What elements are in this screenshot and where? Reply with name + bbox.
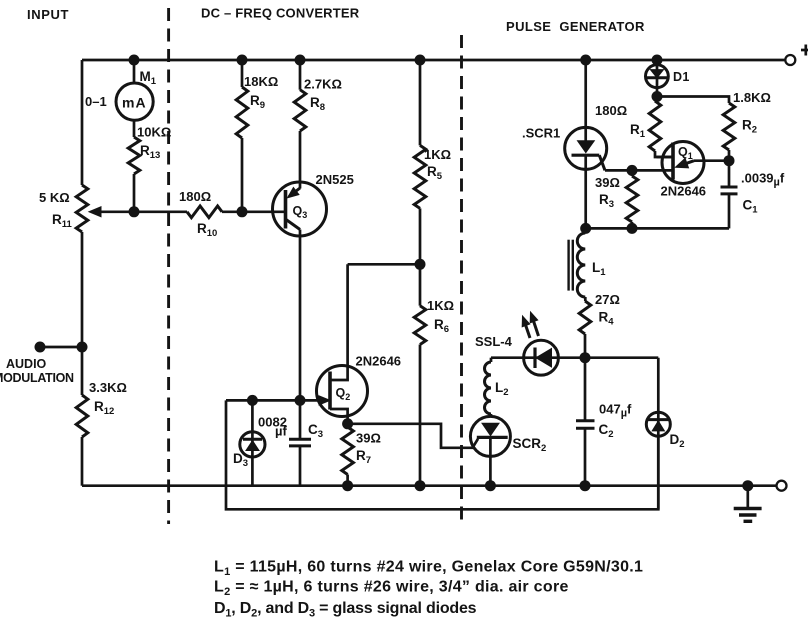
svg-text:L1 = 115µH, 60 turns #24 wire,: L1 = 115µH, 60 turns #24 wire, Genelax C… [214,559,643,579]
wire R8 upper lead [299,60,302,90]
junction R5 top [415,55,426,66]
svg-text:D1: D1 [673,70,690,84]
junction C2 bottom [580,480,591,491]
potentiometer R11 [76,185,88,232]
wire left rail lower [81,437,84,486]
wire audio input [40,346,82,349]
wire wiper arm [98,210,187,213]
unijunction transistor Q2 2N2646 [317,264,368,424]
inductor L1 [569,228,586,297]
junction audio node [77,342,88,353]
resistor R6 [414,306,426,345]
svg-text:2.7KΩ: 2.7KΩ [304,77,342,92]
diode D1 [646,60,669,97]
wire Q2 base1 to SCR2 gate [348,424,478,448]
junction Q3 collector and Q2 emitter [295,395,306,406]
SCR2 [470,416,510,485]
diode D3 [240,400,265,485]
svg-text:39Ω: 39Ω [356,431,381,446]
svg-text:27Ω: 27Ω [595,292,620,307]
svg-text:1.8KΩ: 1.8KΩ [733,90,771,105]
resistor R8 [294,90,306,131]
wire left rail mid [81,232,84,395]
wire Q2 base2 to R5 node [348,263,420,266]
wiper arrowhead of R11 [89,207,101,217]
svg-text:µf: µf [275,424,287,439]
wire left rail upper [81,60,84,185]
junction R3 top [627,165,638,176]
junction R9 top [237,55,248,66]
junction wiper node [129,206,140,217]
junction D3 top [247,395,258,406]
resistor R7 [342,424,354,486]
svg-text:MODULATION: MODULATION [0,371,74,385]
wire pulse node to D2 [585,356,658,359]
svg-text:180Ω: 180Ω [595,103,627,118]
svg-text:INPUT: INPUT [27,7,69,22]
wire SCR1 gate to Q1 base1 [605,169,673,172]
resistor R10 [187,206,222,218]
svg-text:mA: mA [122,95,147,111]
capacitor C2 [576,358,595,486]
svg-text:0–1: 0–1 [85,94,107,109]
junction ground node [742,480,753,491]
svg-text:2N2646: 2N2646 [661,184,707,199]
svg-text:DC – FREQ CONVERTER: DC – FREQ CONVERTER [201,6,360,21]
wire meter feed [133,60,136,84]
wire feedback box left [226,400,658,509]
svg-text:.SCR1: .SCR1 [522,126,560,141]
junction Q2 base1 node [342,418,353,429]
wire R6 upper lead [419,264,422,305]
LED SSL-4 [491,312,585,375]
transistor Q3 2N525 [273,182,327,236]
resistor R5 [414,145,426,208]
svg-text:L2 = ≈ 1µH, 6 turns #26 wire,: L2 = ≈ 1µH, 6 turns #26 wire, 3/4” dia. … [214,579,569,599]
wire Q3 collector [299,230,302,401]
junction Q1 emitter node [724,155,735,166]
wire R8 to Q3 emitter [299,131,302,189]
wire R10 to Q3 base [222,210,286,213]
svg-text:5 KΩ: 5 KΩ [39,190,70,205]
wire R6 lower lead [419,345,422,486]
svg-text:2N525: 2N525 [316,172,354,187]
wire R5 lower lead [419,208,422,264]
svg-text:PULSE GENERATOR: PULSE GENERATOR [506,19,645,34]
wire R9 lower lead [241,138,244,212]
capacitor C1 [586,161,738,229]
diode D2 [646,358,670,510]
ground output terminal [777,481,787,491]
junction R9 bottom [237,206,248,217]
svg-text:2N2646: 2N2646 [356,354,402,369]
capacitor C3 [289,400,311,485]
junction R8 top [295,55,306,66]
svg-text:SSL-4: SSL-4 [475,334,513,349]
svg-text:18KΩ: 18KΩ [244,74,278,89]
resistor R1 [649,97,673,158]
svg-text:39Ω: 39Ω [595,175,620,190]
junction R7 bottom [342,480,353,491]
resistor R12 [76,395,88,437]
wire top supply rail [82,59,785,62]
ground [734,486,762,522]
junction R6 bottom [415,480,426,491]
dashed section separator 2 [460,35,463,527]
junction R3 bottom [627,223,638,234]
junction top of meter M1 [129,55,140,66]
resistor R3 [626,170,638,228]
svg-text:3.3KΩ: 3.3KΩ [89,380,127,395]
resistor R13 [128,137,140,174]
svg-text:AUDIO: AUDIO [6,357,47,371]
wire Q2 emitter row [226,399,324,402]
junction D1 cathode node [652,91,663,102]
svg-text:1KΩ: 1KΩ [424,147,451,162]
positive supply terminal [785,55,795,65]
svg-text:1KΩ: 1KΩ [427,298,454,313]
junction SCR1 anode [580,55,591,66]
svg-text:180Ω: 180Ω [179,189,211,204]
audio input terminal [35,342,46,353]
SCR1 [565,60,607,228]
svg-text:10KΩ: 10KΩ [137,125,171,140]
junction D1 anode [652,55,663,66]
junction SCR1 cathode node [580,223,591,234]
junction SCR2 cathode [485,480,496,491]
resistor R2 [657,97,735,161]
wire meter to R13 [133,120,136,137]
meter M1 0-1 mA [116,83,153,120]
inductor L2 [485,358,491,417]
resistor R9 [236,87,248,138]
wire R4 to pulse node [584,334,587,358]
wire R9 upper lead [241,60,244,87]
plus sign supply polarity [801,49,808,52]
junction pulse output node [580,352,591,363]
wire L1 to R4 [584,297,587,301]
resistor R4 [579,301,591,334]
wire bottom ground rail [82,484,777,487]
wire R5 upper lead [419,60,422,145]
dashed section separator 1 [167,8,170,524]
wire R13 to wiper node [133,174,136,212]
unijunction transistor Q1 2N2646 [657,142,730,184]
junction R5 R6 Q2 base2 [415,259,426,270]
